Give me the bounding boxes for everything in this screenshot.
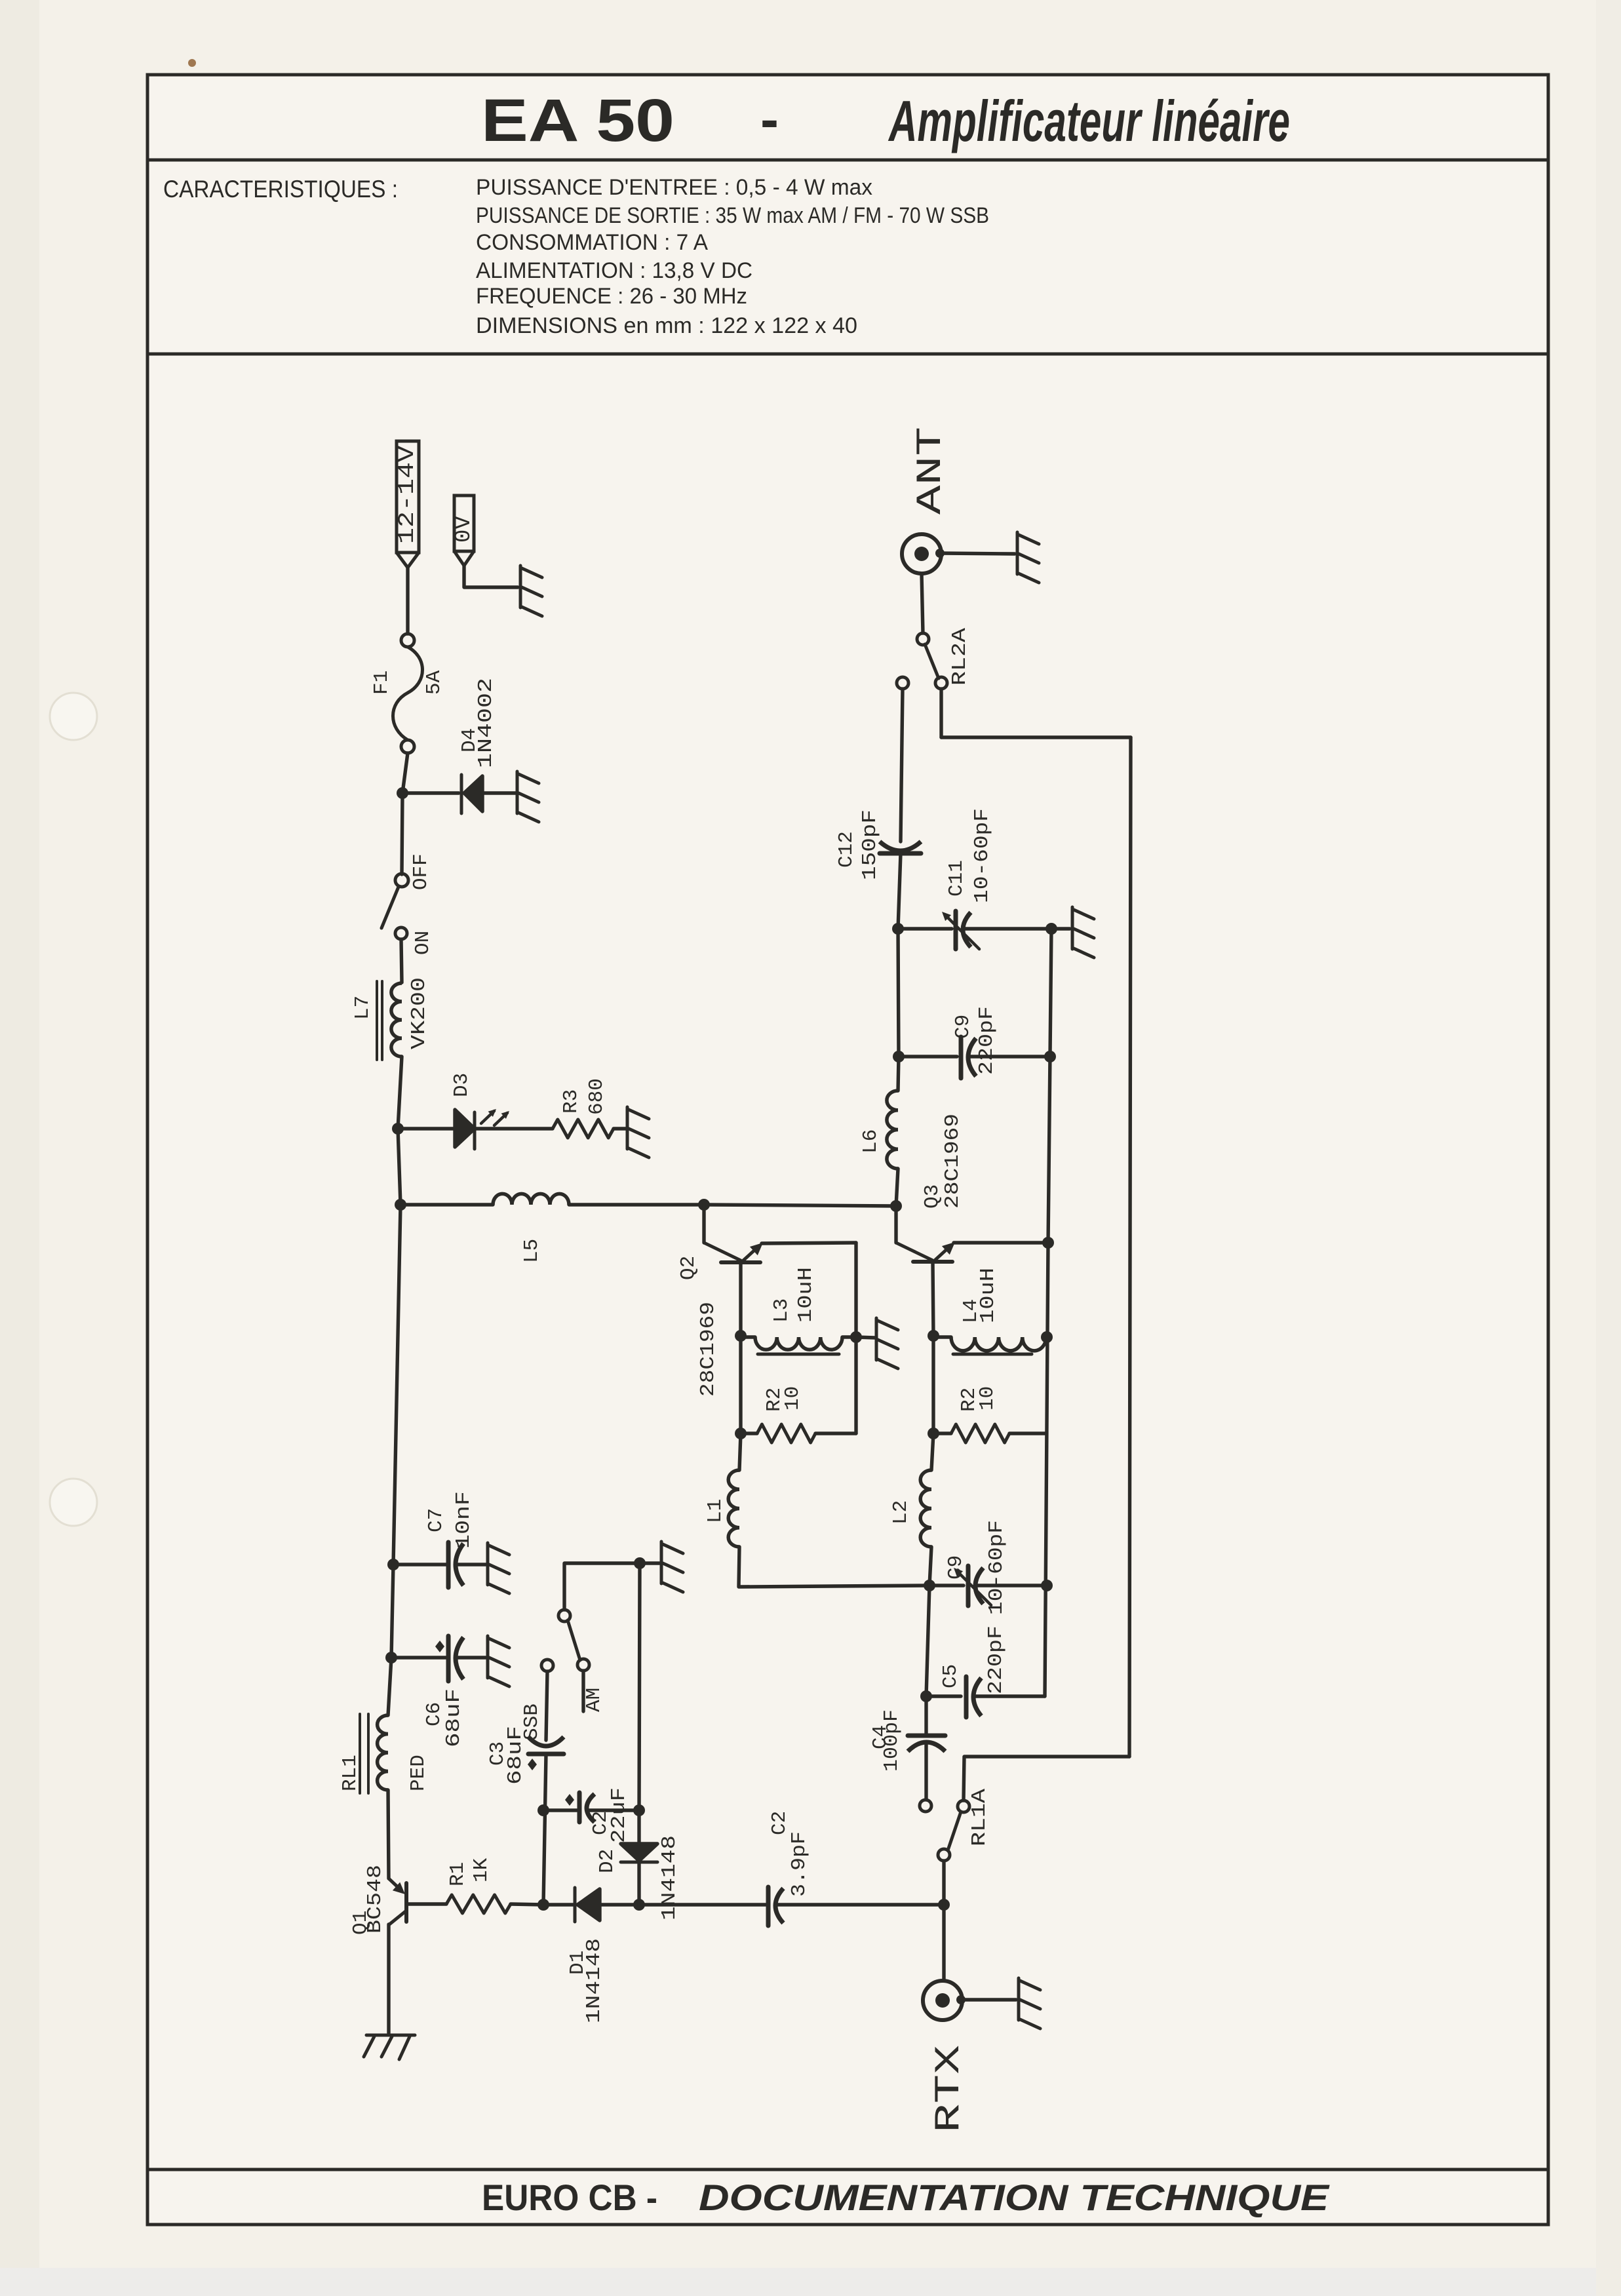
svg-text:DIMENSIONS en mm : 122 x 122: DIMENSIONS en mm : 122 x 122 x 40 bbox=[476, 313, 857, 338]
label 10 Q2 bbox=[781, 1386, 804, 1411]
label 100pF bbox=[880, 1709, 903, 1772]
svg-text:R3: R3 bbox=[560, 1089, 583, 1114]
wire 12-14V to F1 bbox=[406, 568, 409, 634]
wire L4 lead bbox=[933, 1335, 951, 1338]
wire C7 to ground bbox=[456, 1563, 486, 1566]
svg-text:28C1969: 28C1969 bbox=[697, 1302, 720, 1397]
wire C5 to rail bbox=[973, 1694, 1045, 1698]
wire C9 top lead bbox=[899, 1055, 957, 1058]
title dash bbox=[760, 88, 779, 150]
svg-text:10uH: 10uH bbox=[977, 1268, 1000, 1323]
diode D1 bbox=[575, 1888, 600, 1922]
ground (D4) bbox=[517, 771, 539, 822]
ground (C7) bbox=[488, 1543, 509, 1593]
LED D3 arrows bbox=[481, 1109, 509, 1125]
svg-text:12-14V: 12-14V bbox=[395, 445, 420, 544]
wire D4 to ground bbox=[482, 791, 516, 794]
label 3.9pF bbox=[788, 1831, 811, 1897]
label OFF bbox=[410, 853, 433, 890]
resistor R2 (Q3) bbox=[951, 1424, 1009, 1443]
node RTX junction bbox=[938, 1899, 950, 1911]
label 28C1969 Q3 bbox=[941, 1114, 964, 1209]
ground (C11) bbox=[1072, 907, 1094, 958]
capacitor C2 22uF bbox=[565, 1793, 595, 1822]
svg-text:L7: L7 bbox=[351, 996, 374, 1020]
spec line 1 bbox=[476, 175, 872, 200]
capacitor C5 bbox=[966, 1677, 981, 1717]
ground (R3) bbox=[627, 1107, 649, 1158]
svg-text:PED: PED bbox=[407, 1755, 430, 1791]
svg-text:ON: ON bbox=[412, 931, 435, 955]
label SSB bbox=[520, 1703, 543, 1740]
label ANT bbox=[911, 427, 951, 515]
svg-text:C5: C5 bbox=[939, 1664, 962, 1688]
wire C6 row bbox=[391, 1656, 447, 1659]
wire D3 node to bus node bbox=[398, 1129, 400, 1205]
label C3 bbox=[486, 1741, 509, 1766]
label C6 bbox=[423, 1702, 446, 1726]
node C11 right bbox=[1045, 923, 1057, 935]
label 28C1969 Q2 bbox=[697, 1302, 720, 1397]
svg-text:BC548: BC548 bbox=[364, 1865, 387, 1934]
label PED bbox=[407, 1755, 430, 1791]
resistor R2 (Q2) bbox=[757, 1424, 815, 1443]
wire RL1A NO up bbox=[964, 1757, 1129, 1800]
svg-text:10-60pF: 10-60pF bbox=[971, 808, 994, 903]
inductor L4 core line bbox=[953, 1353, 1032, 1356]
svg-text:EURO CB -: EURO CB - bbox=[482, 2177, 657, 2218]
svg-text:1K: 1K bbox=[470, 1858, 493, 1882]
wire D1 to D2 node bbox=[600, 1903, 639, 1906]
label 1N4002 bbox=[475, 678, 498, 768]
ground (switch pole) bbox=[661, 1542, 683, 1592]
node Q3 collector top bbox=[890, 1200, 902, 1212]
node C9 top left bbox=[893, 1051, 905, 1062]
label C9 top bbox=[952, 1015, 975, 1039]
wire C7 to C6 node bbox=[391, 1565, 393, 1658]
svg-text:Amplificateur linéaire: Amplificateur linéaire bbox=[888, 88, 1290, 153]
svg-text:C9: C9 bbox=[945, 1555, 967, 1580]
svg-text:FREQUENCE : 26 - 30 MHz: FREQUENCE : 26 - 30 MHz bbox=[476, 284, 747, 309]
connector 0V bbox=[452, 496, 477, 566]
wire R2b lead right bbox=[1009, 1431, 1046, 1435]
svg-text:68uF: 68uF bbox=[442, 1688, 465, 1747]
node L3 right bbox=[850, 1331, 862, 1343]
node L4 left bbox=[928, 1330, 939, 1342]
label 150pF bbox=[859, 809, 882, 880]
wire C12 rail down bbox=[898, 929, 899, 1057]
inductor L2 bbox=[920, 1470, 931, 1547]
svg-text:Q3: Q3 bbox=[921, 1184, 944, 1209]
capacitor C6 plus bbox=[435, 1641, 444, 1652]
fuse F1 bbox=[393, 634, 423, 753]
label ON bbox=[412, 931, 435, 955]
wire D3 to R3 bbox=[475, 1127, 553, 1130]
wire C5 row left bbox=[926, 1586, 929, 1696]
wire L7 to D3 node bbox=[398, 1057, 402, 1129]
capacitor C9 top bbox=[961, 1037, 976, 1078]
ground (Q1 emitter) bbox=[364, 2035, 415, 2059]
LED D3 bbox=[455, 1110, 475, 1149]
capacitor C7 bbox=[448, 1542, 463, 1587]
node R2b left bbox=[928, 1428, 939, 1439]
svg-text:EA 50: EA 50 bbox=[481, 87, 674, 154]
wire R3 to ground bbox=[614, 1127, 626, 1130]
resistor R1 bbox=[446, 1895, 511, 1913]
node L3 left bbox=[735, 1330, 747, 1342]
node C11 left bbox=[892, 923, 904, 935]
wire ANT to RL2A bbox=[922, 574, 923, 633]
wire RL2A NC down bbox=[901, 689, 903, 842]
label C11 bbox=[945, 860, 968, 897]
switch SSB/AM bbox=[541, 1610, 589, 1671]
node C7 bbox=[387, 1559, 399, 1570]
wire C11 node to ground bbox=[1051, 927, 1070, 930]
wire RL2A contact down bbox=[939, 689, 943, 737]
node C6 bbox=[385, 1652, 397, 1664]
title EA 50 bbox=[481, 87, 674, 154]
hole punch top bbox=[50, 693, 97, 740]
wire to ground (switch) bbox=[640, 1561, 659, 1565]
inductor L3 bbox=[755, 1337, 842, 1350]
resistor R3 bbox=[553, 1119, 614, 1138]
svg-text:-: - bbox=[760, 88, 779, 150]
node C4 top bbox=[920, 1690, 932, 1702]
label VK200 bbox=[408, 977, 431, 1049]
wire C9 to rail bbox=[975, 1584, 1047, 1587]
connector ANT bbox=[902, 534, 945, 574]
connector 12-14V bbox=[395, 441, 420, 568]
node C9 rail bbox=[1041, 1580, 1053, 1591]
label 10-60pF C11 bbox=[971, 808, 994, 903]
label 220pF C9 top bbox=[975, 1006, 998, 1075]
wire SSB to C3 bbox=[546, 1671, 547, 1740]
wire F1 to D4 node bbox=[402, 753, 408, 793]
label L3 bbox=[770, 1298, 793, 1323]
inductor L4 bbox=[951, 1337, 1046, 1351]
footer DOCUMENTATION TECHNIQUE bbox=[699, 2177, 1330, 2218]
node D4 junction bbox=[397, 787, 408, 799]
svg-text:1N4148: 1N4148 bbox=[658, 1835, 681, 1920]
wire L5 to Q2 collector node bbox=[569, 1203, 704, 1206]
node bottom C9 bbox=[924, 1580, 935, 1591]
spec line 2 bbox=[476, 203, 989, 228]
relay coil RL1 core lines bbox=[360, 1714, 368, 1793]
svg-text:680: 680 bbox=[585, 1078, 608, 1115]
wire Q3 base down bbox=[933, 1262, 933, 1336]
svg-text:22uF: 22uF bbox=[608, 1787, 631, 1843]
wire RTX node down bbox=[942, 1905, 945, 1981]
label 68uF C6 bbox=[442, 1688, 465, 1747]
svg-text:VK200: VK200 bbox=[408, 977, 431, 1049]
transistor Q1 bbox=[389, 1878, 406, 1924]
label 5A bbox=[423, 670, 446, 695]
node D3 junction bbox=[392, 1123, 404, 1135]
svg-text:ANT: ANT bbox=[911, 427, 951, 515]
label D2 bbox=[596, 1849, 619, 1873]
node bus left bbox=[395, 1199, 406, 1211]
trimmer C9 bottom bbox=[954, 1566, 991, 1606]
diode D4 bbox=[461, 775, 482, 813]
node C3 branch bbox=[537, 1804, 549, 1816]
svg-text:10: 10 bbox=[781, 1386, 804, 1411]
svg-text:5A: 5A bbox=[423, 670, 446, 695]
diode D2 bbox=[621, 1844, 657, 1862]
wire C11 lead bbox=[898, 927, 952, 930]
wire bus Q2 to Q3 bbox=[704, 1205, 896, 1206]
label L7 bbox=[351, 996, 374, 1020]
wire C5 lead bbox=[926, 1694, 961, 1698]
label AM bbox=[583, 1688, 606, 1712]
svg-text:CONSOMMATION : 7 A: CONSOMMATION : 7 A bbox=[476, 230, 708, 255]
wire RL1A pole down bbox=[942, 1861, 945, 1905]
svg-text:AM: AM bbox=[583, 1688, 606, 1712]
node Q2 collector bbox=[698, 1199, 710, 1211]
spec line 5 bbox=[476, 284, 747, 309]
wire R2 lead right bbox=[815, 1431, 856, 1435]
svg-text:100pF: 100pF bbox=[880, 1709, 903, 1772]
wire L2 to bottom node bbox=[929, 1547, 931, 1586]
wire C3 node to C2 22uF bbox=[543, 1808, 577, 1812]
wire Q1 emitter to ground bbox=[387, 1924, 390, 2033]
wire ANT to ground bbox=[940, 553, 1015, 554]
svg-text:10-60pF: 10-60pF bbox=[985, 1520, 1008, 1615]
wire Q1 base to R1 bbox=[406, 1902, 446, 1905]
ground (ANT) bbox=[1017, 532, 1039, 583]
wire C9 to L6 bbox=[898, 1057, 899, 1091]
wire AM stub bbox=[581, 1671, 585, 1711]
node R2 left bbox=[735, 1428, 747, 1439]
svg-text:C12: C12 bbox=[835, 831, 858, 868]
wire C11 to rail bbox=[963, 927, 1049, 930]
title box separator bbox=[147, 159, 1548, 162]
wire bus to L5 bbox=[400, 1203, 493, 1206]
label L4 bbox=[960, 1299, 983, 1323]
svg-text:DOCUMENTATION TECHNIQUE: DOCUMENTATION TECHNIQUE bbox=[699, 2177, 1330, 2218]
label 220pF C5 bbox=[985, 1625, 1007, 1694]
spec line 6 bbox=[476, 313, 857, 338]
svg-text:68uF: 68uF bbox=[504, 1726, 527, 1785]
label 1N4148 D2 bbox=[658, 1835, 681, 1920]
wire C12 down bbox=[898, 853, 901, 929]
label R3 bbox=[560, 1089, 583, 1114]
ground (RTX) bbox=[1019, 1978, 1040, 2029]
svg-text:L3: L3 bbox=[770, 1298, 793, 1323]
label C4 bbox=[869, 1725, 892, 1749]
svg-text:3.9pF: 3.9pF bbox=[788, 1831, 811, 1897]
svg-text:0V: 0V bbox=[452, 516, 477, 543]
wire R2 lead left bbox=[741, 1431, 757, 1435]
wire C2 to RTX node bbox=[775, 1903, 944, 1906]
wire C6 to ground bbox=[456, 1656, 486, 1659]
label D1 bbox=[566, 1951, 589, 1975]
wire RTX to ground bbox=[961, 1998, 1016, 2001]
wire L3 lead bbox=[741, 1335, 755, 1338]
label D3 bbox=[450, 1073, 473, 1097]
wire C6 to RL1 bbox=[388, 1658, 391, 1715]
wire C7 row bbox=[393, 1563, 447, 1566]
relay coil RL1 bbox=[378, 1715, 388, 1790]
label Q2 bbox=[677, 1256, 700, 1280]
svg-text:RL1A: RL1A bbox=[968, 1789, 991, 1846]
ground (0V) bbox=[520, 566, 542, 616]
label L2 bbox=[889, 1500, 912, 1525]
wire Q3 rail lower bbox=[1045, 1243, 1048, 1696]
wire L1 to bottom corner bbox=[739, 1547, 928, 1587]
label Q1 bbox=[349, 1911, 372, 1935]
svg-text:10nF: 10nF bbox=[452, 1491, 475, 1549]
wire Q2 emitter bbox=[762, 1243, 856, 1243]
ground (C6) bbox=[488, 1636, 509, 1686]
wire D2 to bottom bbox=[637, 1862, 640, 1905]
wire Q2 emitter rail bbox=[854, 1243, 857, 1433]
capacitor C4 bbox=[908, 1696, 945, 1800]
svg-text:OFF: OFF bbox=[410, 853, 433, 890]
paper specks bbox=[147, 59, 1459, 2096]
label R2 Q2 bbox=[763, 1388, 786, 1412]
wire D4 node to switch bbox=[402, 793, 402, 874]
svg-text:Q2: Q2 bbox=[677, 1256, 700, 1280]
svg-text:220pF: 220pF bbox=[975, 1006, 998, 1075]
node C9 top right bbox=[1044, 1051, 1056, 1062]
node L4 right bbox=[1041, 1331, 1053, 1343]
title Amplificateur lineaire bbox=[888, 88, 1290, 153]
node switch ground bbox=[634, 1557, 646, 1569]
capacitor C12 bbox=[880, 842, 921, 853]
choke L7 bbox=[391, 983, 402, 1057]
label Q3 bbox=[921, 1184, 944, 1209]
label RL1 bbox=[339, 1755, 362, 1791]
wire Q3 emitter bbox=[954, 1241, 1048, 1244]
svg-text:D3: D3 bbox=[450, 1073, 473, 1097]
label 22uF bbox=[608, 1787, 631, 1843]
wire R1 to C3 node bbox=[511, 1904, 543, 1905]
wire RL1 to Q1 bbox=[388, 1790, 389, 1878]
label 10-60pF bottom bbox=[985, 1520, 1008, 1615]
wire R2 to L1 bbox=[739, 1433, 741, 1470]
inductor L3 core line bbox=[758, 1353, 839, 1356]
label 10 Q3 bbox=[976, 1386, 999, 1411]
trimmer C11 bbox=[942, 911, 979, 949]
wire Q3 rail upper bbox=[1048, 929, 1051, 1243]
label BC548 bbox=[364, 1865, 387, 1934]
characteristics box separator bbox=[147, 353, 1548, 356]
wire C3 down bbox=[543, 1754, 546, 1905]
wire switch to L7 bbox=[401, 939, 402, 983]
wire right rail bbox=[1129, 737, 1131, 1757]
svg-text:CARACTERISTIQUES :: CARACTERISTIQUES : bbox=[163, 176, 398, 203]
label C2 3.9pF bbox=[768, 1811, 791, 1835]
label C12 bbox=[835, 831, 858, 868]
label 680 bbox=[585, 1078, 608, 1115]
ground (L3) bbox=[876, 1318, 898, 1369]
wire R2b lead left bbox=[933, 1431, 951, 1435]
label RL1A bbox=[968, 1789, 991, 1846]
wire D2 node to C2 bbox=[639, 1903, 766, 1906]
svg-text:150pF: 150pF bbox=[859, 809, 882, 880]
label L1 bbox=[704, 1499, 727, 1523]
wire to D4 bbox=[402, 791, 459, 794]
label R2 Q3 bbox=[958, 1388, 981, 1412]
spec line 3 bbox=[476, 230, 708, 255]
label 1K bbox=[470, 1858, 493, 1882]
connector RTX bbox=[923, 1981, 966, 2020]
svg-text:PUISSANCE DE SORTIE : 35 W max: PUISSANCE DE SORTIE : 35 W max AM / FM -… bbox=[476, 203, 989, 228]
relay contact RL1A bbox=[920, 1800, 969, 1861]
label RL2A bbox=[948, 628, 971, 686]
capacitor C2 3.9pF bbox=[768, 1887, 783, 1926]
label C9 bottom bbox=[945, 1555, 967, 1580]
label C5 bbox=[939, 1664, 962, 1688]
svg-text:F1: F1 bbox=[370, 671, 393, 695]
node D2 bottom bbox=[633, 1899, 645, 1911]
svg-text:L1: L1 bbox=[704, 1499, 727, 1523]
svg-text:28C1969: 28C1969 bbox=[941, 1114, 964, 1209]
label 10uH L3 bbox=[794, 1267, 817, 1323]
svg-text:1N4002: 1N4002 bbox=[475, 678, 498, 768]
wire L1 column upper bbox=[739, 1336, 742, 1433]
wire L3 node to ground bbox=[856, 1337, 875, 1338]
label C7 bbox=[425, 1508, 448, 1532]
svg-text:RL2A: RL2A bbox=[948, 628, 971, 686]
label L5 bbox=[520, 1239, 543, 1263]
svg-text:L5: L5 bbox=[520, 1239, 543, 1263]
inductor L5 bbox=[493, 1194, 569, 1205]
node Q3 emitter rail bbox=[1042, 1237, 1054, 1249]
label 10uH L4 bbox=[977, 1268, 1000, 1323]
svg-text:C9: C9 bbox=[952, 1015, 975, 1039]
label C2 22uF bbox=[589, 1811, 612, 1835]
wire C9 lead bbox=[929, 1584, 964, 1587]
wire to D3 bbox=[398, 1127, 455, 1130]
capacitor C6 bbox=[448, 1636, 463, 1681]
wire Q2 base down bbox=[739, 1262, 742, 1336]
choke L7 core lines bbox=[377, 981, 382, 1060]
svg-text:220pF: 220pF bbox=[985, 1625, 1007, 1694]
wire C3 node to D1 bbox=[543, 1903, 575, 1906]
wire R2b to L2 bbox=[931, 1433, 933, 1470]
svg-text:RL1: RL1 bbox=[339, 1755, 362, 1791]
label R1 bbox=[446, 1862, 469, 1886]
svg-text:L2: L2 bbox=[889, 1500, 912, 1525]
svg-text:C11: C11 bbox=[945, 860, 968, 897]
wire rail to RL2A bbox=[941, 735, 1131, 739]
wire C2 to D2 rail bbox=[587, 1563, 640, 1842]
wire C9 top to rail bbox=[968, 1055, 1050, 1058]
switch S1 OFF/ON bbox=[381, 874, 408, 939]
svg-text:L6: L6 bbox=[859, 1129, 882, 1154]
transistor Q3 bbox=[896, 1206, 955, 1262]
svg-text:D2: D2 bbox=[596, 1849, 619, 1873]
node C3 bottom bbox=[537, 1899, 549, 1911]
label L6 bbox=[859, 1129, 882, 1154]
label 1N4148 D1 bbox=[583, 1938, 606, 2023]
inductor L1 bbox=[728, 1470, 739, 1547]
node C2 right bbox=[633, 1804, 645, 1816]
wire L2 column upper bbox=[931, 1336, 935, 1433]
svg-text:ALIMENTATION : 13,8 V DC: ALIMENTATION : 13,8 V DC bbox=[476, 258, 752, 283]
label D4 bbox=[458, 728, 481, 752]
inductor L6 bbox=[887, 1091, 898, 1169]
svg-text:C7: C7 bbox=[425, 1508, 448, 1532]
svg-text:10uH: 10uH bbox=[794, 1267, 817, 1323]
footer box separator bbox=[147, 2168, 1548, 2171]
wire SSB pole up bbox=[564, 1563, 638, 1610]
label 10nF bbox=[452, 1491, 475, 1549]
capacitor C3 bbox=[528, 1737, 564, 1770]
label CARACTERISTIQUES bbox=[163, 176, 398, 203]
spec line 4 bbox=[476, 258, 752, 283]
